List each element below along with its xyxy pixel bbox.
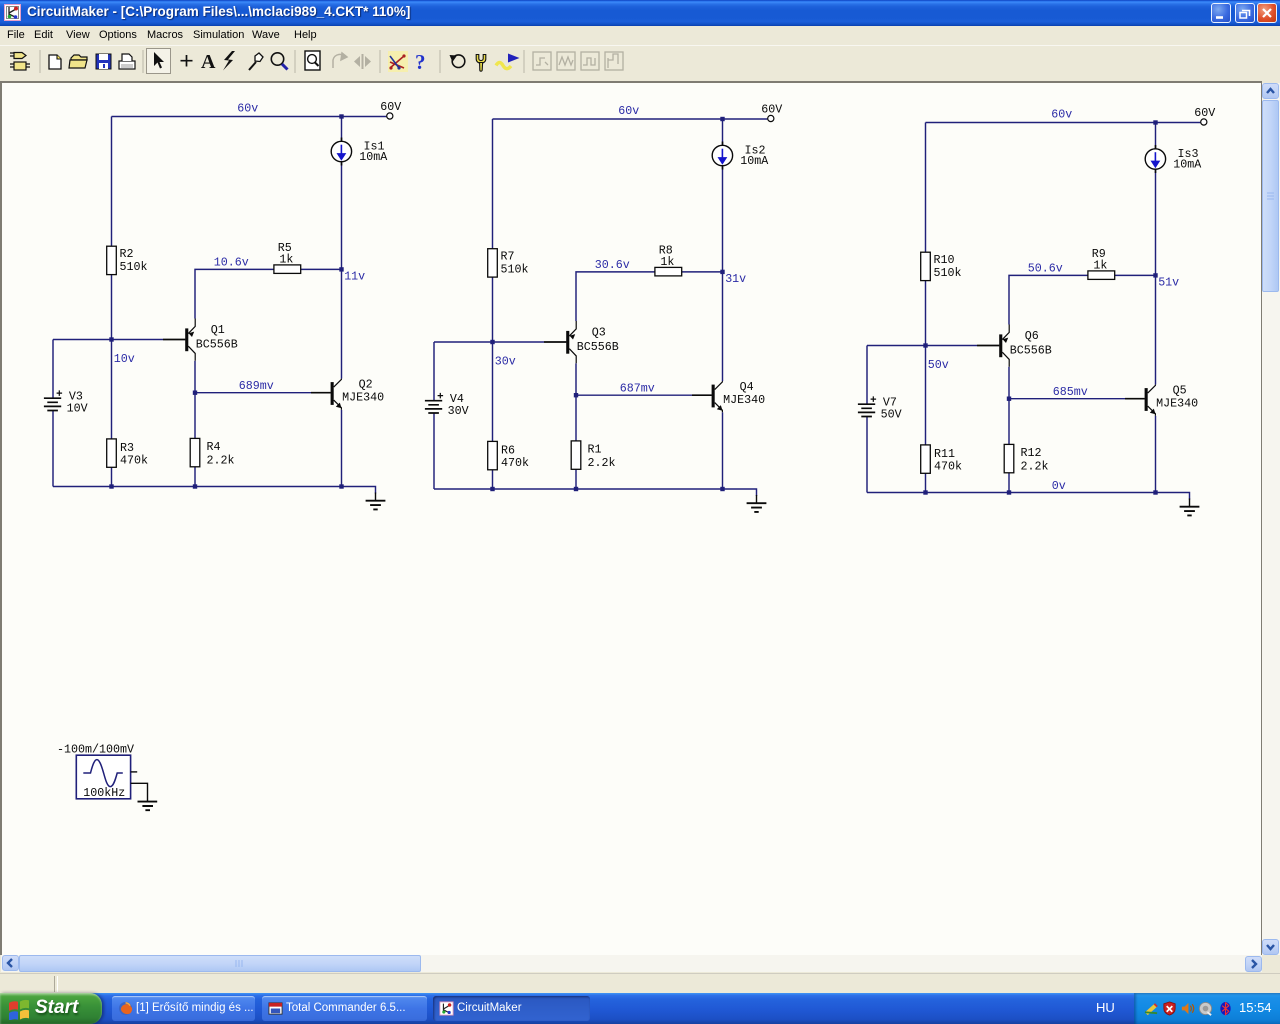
wire emitter resistor branch R4	[194, 393, 196, 487]
transistor Q6 BC556B (PNP)	[977, 325, 1052, 367]
wire 60v top rail Q6 circuit	[926, 122, 1201, 124]
node 685mv junction	[1007, 397, 1011, 401]
wire feedback node 30.6v	[576, 272, 723, 321]
arrow select tool (pressed)	[147, 49, 171, 74]
wire ground rail	[434, 489, 757, 496]
wire base rail 30v	[434, 341, 544, 343]
tray icon: pen tablet	[1144, 1001, 1159, 1016]
current source Is1 10mA	[331, 138, 388, 166]
resistor R2 510k (top bias)	[107, 246, 148, 274]
junction ground rail right	[1153, 490, 1157, 494]
task button: CircuitMaker (active)	[433, 996, 590, 1021]
resistor R1 2.2k (emitter degeneration)	[571, 441, 615, 470]
save floppy icon	[96, 54, 111, 69]
junction ground rail left	[923, 490, 927, 494]
resistor R5 1k (feedback, horizontal)	[274, 241, 301, 273]
wire 60v top rail Q3 circuit	[493, 118, 768, 120]
current source Is2 10mA	[712, 142, 769, 170]
toolbar	[0, 45, 1280, 77]
svg-text:A: A	[201, 51, 216, 73]
menu bar	[0, 26, 1280, 45]
wire left vertical through R10	[925, 123, 927, 493]
junction ground rail left	[490, 487, 494, 491]
ground symbol	[366, 493, 386, 510]
wire left vertical through R2	[111, 117, 113, 487]
tray icon: volume knob	[1198, 1001, 1213, 1016]
close button	[1257, 3, 1277, 23]
transistor Q3 BC556B (PNP)	[544, 321, 619, 363]
horizontal scrollbar	[1, 955, 1262, 972]
new document icon	[49, 55, 61, 69]
node 30v junction	[490, 340, 494, 344]
resistor R6 470k (lower bias)	[488, 441, 529, 469]
rotate icon (disabled)	[333, 53, 347, 68]
wire node 687mv to base of Q4	[576, 394, 692, 396]
browse library tool icon	[10, 53, 30, 71]
resistor R7 510k (top bias)	[488, 249, 529, 277]
ground symbol	[747, 495, 767, 512]
wire left vertical through R7	[492, 119, 494, 489]
wire collector of Q3 to node 687mv	[575, 363, 577, 395]
resistor R12 2.2k (emitter degeneration)	[1004, 444, 1048, 473]
wire ground rail	[53, 487, 376, 494]
wire battery branch V3	[52, 340, 54, 487]
wire collector of Q6 to node 685mv	[1008, 367, 1010, 399]
transistor Q4 MJE340 (NPN)	[692, 380, 765, 412]
terminal 60V	[1201, 119, 1207, 125]
wire 60v top rail Q1 circuit	[112, 116, 387, 118]
wires/netlist colored icon	[388, 51, 408, 72]
node 687mv junction	[574, 393, 578, 397]
transistor Q5 MJE340 (NPN)	[1125, 384, 1198, 416]
ground symbol (signal generator)	[138, 802, 158, 811]
wire ground rail	[867, 493, 1190, 500]
wire current source branch Is3	[1155, 123, 1157, 385]
lightning bolt tool	[223, 51, 235, 71]
node 60v junction	[720, 117, 724, 121]
status bar	[0, 973, 1280, 994]
junction ground rail right	[339, 484, 343, 488]
wire node 685mv to base of Q5	[1009, 398, 1125, 400]
resistor R10 510k (top bias)	[921, 252, 962, 280]
signal generator V source -100m/100mV 100kHz	[57, 742, 135, 800]
node 60v junction	[1153, 120, 1157, 124]
node 11v junction	[339, 267, 343, 271]
probe tool	[249, 53, 263, 70]
resistor R3 470k (lower bias)	[107, 439, 148, 467]
wire emitter resistor branch R1	[575, 395, 577, 489]
task button: Total Commander	[262, 996, 427, 1021]
plus tool	[181, 55, 193, 67]
CircuitMaker application icon	[4, 4, 21, 21]
node 60v junction	[339, 114, 343, 118]
mirror icon (disabled)	[354, 54, 371, 69]
transistor Q1 BC556B (PNP)	[163, 319, 238, 361]
wire signal generator ground pin	[131, 783, 148, 801]
wire battery branch V7	[866, 346, 868, 493]
junction ground rail mid	[1007, 490, 1011, 494]
battery V4 30V	[425, 392, 469, 418]
tray icon: bluetooth	[1218, 1001, 1233, 1016]
battery V3 10V	[44, 389, 88, 415]
terminal 60V	[768, 115, 774, 121]
node 51v junction	[1153, 273, 1157, 277]
node 31v junction	[720, 270, 724, 274]
junction ground rail right	[720, 487, 724, 491]
terminal 60V	[387, 113, 393, 119]
wire current source branch Is1	[341, 117, 343, 379]
current source Is3 10mA	[1145, 145, 1202, 173]
tray icon: red shield	[1162, 1001, 1177, 1016]
wire emitter resistor branch R12	[1008, 399, 1010, 493]
scope icons (disabled)	[533, 52, 623, 70]
junction ground rail mid	[193, 484, 197, 488]
task bar	[0, 993, 1280, 1024]
junction ground rail mid	[574, 487, 578, 491]
title bar	[0, 0, 1280, 26]
wire battery branch V4	[433, 342, 435, 489]
task button: browser window	[112, 996, 255, 1021]
wrench icon	[476, 55, 486, 72]
run simulation icon	[496, 54, 520, 69]
transistor Q2 MJE340 (NPN)	[311, 378, 384, 410]
resistor R4 2.2k (emitter degeneration)	[190, 438, 234, 467]
zoom tool	[271, 53, 287, 70]
vertical scrollbar	[1262, 83, 1280, 955]
wire current source branch Is2	[722, 119, 724, 381]
resistor R11 470k (lower bias)	[921, 445, 962, 473]
wire emitter of Q4 to ground rail	[722, 412, 724, 489]
wire base rail 50v	[867, 345, 977, 347]
resistor R8 1k (feedback, horizontal)	[655, 244, 682, 276]
minimize button	[1211, 3, 1231, 23]
open folder icon	[69, 55, 87, 68]
wire emitter of Q5 to ground rail	[1155, 416, 1157, 493]
battery V7 50V	[858, 395, 902, 421]
wire base rail 10v	[53, 339, 163, 341]
node 689mv junction	[193, 391, 197, 395]
wire collector of Q1 to node 689mv	[194, 361, 196, 393]
resistor R9 1k (feedback, horizontal)	[1088, 247, 1115, 279]
restore button	[1235, 3, 1255, 23]
wire feedback node 50.6v	[1009, 275, 1156, 324]
wire emitter of Q2 to ground rail	[341, 410, 343, 487]
tray icon: speaker	[1180, 1001, 1195, 1016]
node 50v junction	[923, 343, 927, 347]
wire feedback node 10.6v	[195, 269, 342, 318]
wire signal generator output pin	[131, 771, 138, 773]
zoom page icon	[305, 51, 320, 70]
print icon	[119, 54, 135, 69]
svg-text:?: ?	[415, 50, 426, 74]
reset icon	[450, 55, 465, 68]
node 10v junction	[109, 337, 113, 341]
wire node 689mv to base of Q2	[195, 392, 311, 394]
junction ground rail left	[109, 484, 113, 488]
ground symbol	[1180, 499, 1200, 516]
